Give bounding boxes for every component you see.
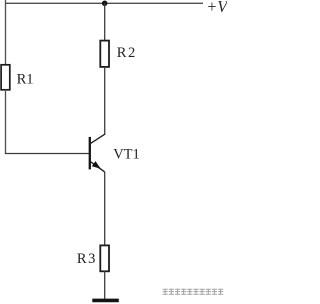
wire left branch vertical upper xyxy=(5,0,7,66)
transistor VT1 xyxy=(90,134,105,172)
wire left branch vertical lower xyxy=(5,90,7,155)
svg-text:+V: +V xyxy=(206,0,227,16)
wire top +V rail xyxy=(6,2,204,4)
svg-text:R3: R3 xyxy=(77,251,97,267)
wire R2 top lead xyxy=(104,3,106,41)
resistor R1 xyxy=(1,65,10,90)
svg-text:VT1: VT1 xyxy=(113,146,140,162)
base bar xyxy=(89,137,91,170)
svg-text:R2: R2 xyxy=(117,45,137,61)
emitter arrow xyxy=(92,161,101,169)
node junction dot on +V rail xyxy=(102,1,108,7)
wire ground lead xyxy=(104,271,106,299)
wire emitter vertical xyxy=(104,172,106,246)
emitter diagonal xyxy=(90,161,105,172)
wire base horizontal xyxy=(5,153,90,155)
watermark xyxy=(163,289,224,295)
collector diagonal xyxy=(90,134,105,144)
resistor R3 xyxy=(100,245,109,271)
ground xyxy=(92,299,119,303)
resistor R2 xyxy=(100,41,109,67)
svg-text:R1: R1 xyxy=(17,72,34,88)
wire collector vertical xyxy=(104,67,106,134)
